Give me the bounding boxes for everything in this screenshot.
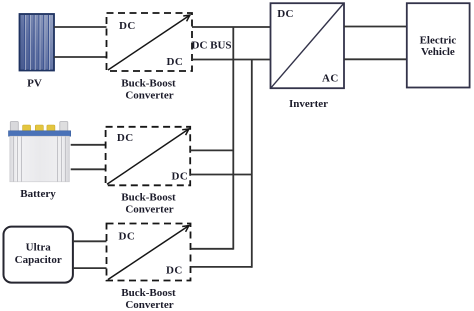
- wire battery top: [71, 144, 106, 146]
- wire converter1 to inverter bottom: [192, 59, 271, 61]
- svg-text:Inverter: Inverter: [289, 98, 328, 110]
- svg-text:AC: AC: [322, 73, 339, 85]
- wire converter3 to bus2: [191, 266, 252, 268]
- svg-text:Converter: Converter: [125, 90, 173, 102]
- wire PV bottom: [54, 56, 107, 58]
- svg-text:DC: DC: [167, 56, 184, 68]
- ultra capacitor: [4, 227, 73, 283]
- DC bus line 2: [251, 60, 253, 268]
- wire converter3 to bus1: [191, 248, 234, 250]
- svg-text:DC: DC: [172, 171, 189, 183]
- buck-boost converter 3 (ultra capacitor): [107, 224, 191, 281]
- buck-boost converter 2 (battery): [106, 127, 191, 186]
- DC bus line 1: [232, 27, 234, 250]
- svg-text:DC BUS: DC BUS: [192, 40, 232, 52]
- wire ultracap top: [73, 240, 107, 242]
- svg-text:Vehicle: Vehicle: [421, 46, 455, 58]
- svg-text:DC: DC: [119, 231, 136, 243]
- svg-text:DC: DC: [119, 20, 136, 32]
- svg-text:DC: DC: [277, 8, 294, 20]
- electric vehicle: [407, 3, 470, 87]
- inverter: [271, 3, 345, 88]
- buck-boost converter 1 (PV): [107, 13, 193, 71]
- wire PV top: [54, 26, 107, 28]
- svg-text:Buck-Boost: Buck-Boost: [121, 192, 176, 204]
- battery: [9, 122, 71, 182]
- svg-text:Ultra: Ultra: [26, 242, 52, 254]
- svg-text:Battery: Battery: [20, 188, 56, 200]
- svg-text:PV: PV: [27, 78, 42, 90]
- svg-text:DC: DC: [166, 265, 183, 277]
- wire converter1 to inverter top: [192, 26, 271, 28]
- wire ultracap bottom: [73, 267, 107, 269]
- svg-text:Buck-Boost: Buck-Boost: [121, 287, 176, 299]
- wire inverter to EV top: [344, 26, 407, 28]
- wire battery bottom: [71, 168, 106, 170]
- wire converter2 to bus1: [190, 149, 233, 151]
- svg-text:Buck-Boost: Buck-Boost: [121, 78, 176, 90]
- svg-text:Converter: Converter: [125, 204, 173, 216]
- svg-text:DC: DC: [117, 132, 134, 144]
- svg-text:Capacitor: Capacitor: [15, 254, 62, 266]
- wire inverter to EV bottom: [344, 58, 407, 60]
- PV panel: [20, 14, 55, 71]
- svg-text:Electric: Electric: [420, 34, 457, 46]
- wire converter2 to bus2: [190, 174, 252, 176]
- svg-text:Converter: Converter: [125, 299, 173, 311]
